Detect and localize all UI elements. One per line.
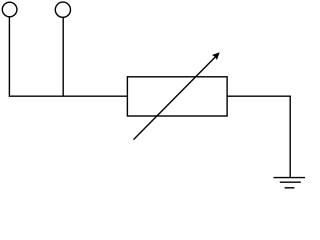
arrowhead bbox=[212, 52, 220, 60]
wire from terminal 2 down bbox=[62, 17, 64, 96]
wire from terminal 1 down bbox=[8, 17, 10, 96]
wire horizontal bus to resistor bbox=[9, 95, 128, 97]
ground bar 3 bbox=[285, 187, 295, 189]
ground bar 2 bbox=[280, 181, 301, 183]
ground bar 1 bbox=[274, 177, 306, 179]
wire down to ground bbox=[289, 96, 291, 177]
resistor R1 body bbox=[127, 77, 227, 116]
wire from resistor right bbox=[227, 95, 291, 97]
terminal circle 1 bbox=[2, 2, 17, 17]
variable-resistor arrow shaft bbox=[134, 56, 217, 140]
terminal circle 2 bbox=[55, 2, 70, 17]
